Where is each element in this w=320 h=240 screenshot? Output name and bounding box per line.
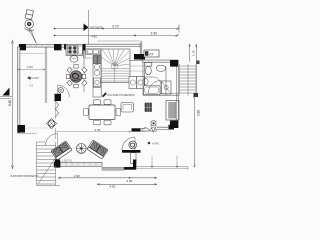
benchmark circle: [25, 20, 34, 29]
sink: [156, 65, 165, 71]
bay bench: [157, 127, 169, 129]
right col dims: [152, 156, 177, 168]
dim line top 1: [54, 28, 179, 30]
toilet: [145, 63, 152, 67]
svg-text:ΚΟΥΖΙΝΑ-ΤΡΑΠΕΖΑΡΙΑ: ΚΟΥΖΙΝΑ-ΤΡΑΠΕΖΑΡΙΑ: [108, 94, 135, 97]
spoke table: [76, 144, 86, 154]
bath door arc: [148, 81, 161, 94]
svg-text:4.90: 4.90: [91, 34, 97, 38]
wc divider: [145, 76, 154, 78]
bathroom black mass: [170, 60, 178, 67]
svg-text:ΛΤ: ΛΤ: [149, 53, 153, 57]
bay black bar: [132, 128, 141, 131]
level marker SE: [148, 142, 151, 145]
sofa B: [87, 140, 108, 159]
counter sink small: [79, 46, 83, 54]
terrace edge line: [136, 167, 188, 170]
south wall left: [54, 162, 102, 166]
west entrance arrow: [3, 88, 10, 96]
svg-text:2.90: 2.90: [151, 32, 158, 36]
bottom dim line 1: [58, 177, 157, 179]
benchmark needle: [29, 29, 37, 43]
wall stub to stairs: [20, 132, 37, 134]
wall top B: [85, 44, 141, 46]
svg-text:4.2: 4.2: [30, 84, 34, 88]
bathtub: [144, 86, 161, 95]
bidet: [143, 78, 148, 85]
bathroom bottom wall: [143, 94, 178, 96]
interior wall W1: [45, 48, 47, 104]
west dim line: [12, 41, 14, 169]
shower: [162, 81, 172, 94]
bath label box: [144, 50, 159, 57]
right top dim arrows: [189, 44, 190, 62]
fireplace: [47, 119, 57, 129]
svg-text:3.80: 3.80: [197, 110, 201, 116]
east dim line: [195, 62, 197, 95]
column top-left: [19, 44, 26, 50]
svg-text:1.50/2.20: 1.50/2.20: [62, 160, 73, 163]
north benchmark pin flag: [25, 10, 34, 20]
column top-mid: [54, 44, 62, 50]
dim line top 2: [54, 35, 178, 37]
dashed line: [25, 127, 54, 129]
svg-text:4.90: 4.90: [110, 185, 116, 189]
sw stairs: [37, 142, 61, 186]
stair treads: [101, 66, 130, 83]
door frame white: [131, 153, 136, 164]
stair winder fan: [101, 49, 130, 66]
svg-text:2.35: 2.35: [95, 128, 101, 132]
svg-text:2.50: 2.50: [27, 65, 33, 69]
dining table: [89, 105, 115, 120]
bay scallops: [142, 128, 158, 131]
bathroom east wall: [177, 62, 179, 96]
bathroom left wall: [143, 62, 145, 95]
dining chairs: [84, 100, 121, 125]
east chair: [121, 103, 134, 113]
east ext stairs: [180, 64, 197, 96]
sideboard east: [166, 101, 179, 121]
wall east upper: [140, 41, 142, 60]
wall top A band: [19, 45, 84, 48]
kitchen counter top: [66, 44, 83, 55]
wall kitchen east: [83, 44, 85, 58]
svg-text:3.70: 3.70: [112, 25, 119, 29]
south col black: [54, 162, 60, 168]
round table chairs: [66, 65, 87, 88]
bathroom divider: [165, 67, 167, 96]
hall door arc: [58, 85, 70, 97]
south wall bar SE: [122, 150, 141, 153]
stair box: [101, 49, 130, 83]
hall ring: [58, 88, 63, 93]
pen symbol: [102, 92, 107, 97]
entry cabinet: [93, 56, 101, 64]
black bit left of counter: [64, 44, 66, 50]
sofa A: [51, 141, 72, 160]
level star: [28, 77, 32, 80]
sink bowls: [94, 65, 99, 70]
black box bay right: [169, 125, 175, 130]
cook square: [94, 78, 101, 87]
bathroom top wall: [143, 60, 179, 62]
svg-text:2.30: 2.30: [74, 174, 80, 178]
black corner SE: [170, 121, 178, 129]
east wall lower: [177, 96, 179, 121]
svg-text:4.90: 4.90: [127, 179, 133, 183]
appliances below: [129, 77, 137, 89]
dark cabinet: [145, 103, 152, 112]
sw door arc: [46, 134, 58, 146]
benchmark scallop base: [25, 28, 34, 32]
canopy line: [97, 40, 141, 42]
wall west: [18, 47, 20, 133]
dim 2.50 interior: [17, 69, 45, 71]
closet line: [20, 53, 46, 55]
oven circle: [70, 55, 78, 62]
svg-text:8.60: 8.60: [8, 100, 12, 106]
column west: [18, 125, 26, 133]
entry shoe band: [86, 49, 102, 55]
south door arc: [122, 137, 135, 150]
entrance arrow: [84, 24, 89, 32]
terrace parapet gray: [102, 167, 124, 170]
svg-text:+0.45: +0.45: [152, 142, 159, 146]
door side table ring: [129, 141, 137, 149]
round table: [70, 71, 82, 83]
sw stair col: [55, 160, 60, 166]
sofa dim line: [55, 131, 131, 133]
svg-text:ΕΙΣΟΔΟΣ: ΕΙΣΟΔΟΣ: [91, 25, 103, 29]
chimney wall: [55, 94, 62, 101]
stove burners: [67, 45, 78, 54]
plant flower: [151, 121, 156, 126]
bottom dim line 2: [97, 183, 157, 185]
svg-text:+0.93: +0.93: [32, 76, 39, 80]
black corner south: [133, 160, 136, 170]
kitchen counter strip: [93, 56, 101, 98]
svg-text:ΚΑΤΟΨΗ ΙΣΟΓΕΙΟΥ: ΚΑΤΟΨΗ ΙΣΟΓΕΙΟΥ: [11, 174, 39, 178]
black bar right of stairs: [134, 54, 145, 60]
svg-text:1.15: 1.15: [192, 50, 196, 56]
